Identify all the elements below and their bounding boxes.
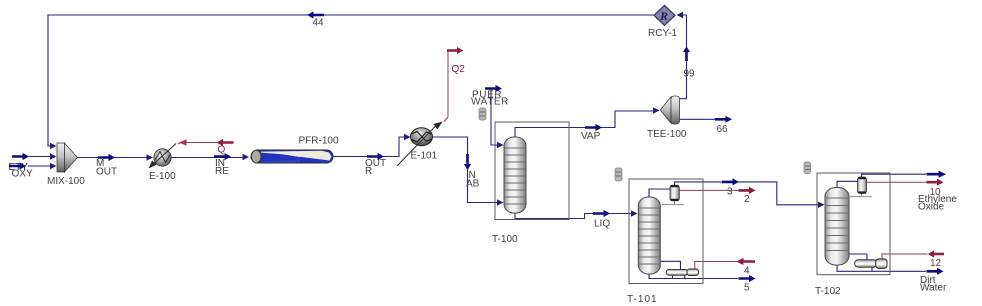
svg-text:E-101: E-101 — [411, 151, 438, 162]
svg-text:5: 5 — [744, 283, 750, 294]
svg-text:Q: Q — [218, 145, 226, 156]
svg-text:AB: AB — [466, 179, 480, 190]
svg-text:VAP: VAP — [581, 131, 601, 142]
svg-text:Q2: Q2 — [452, 64, 466, 75]
svg-text:Oxide: Oxide — [918, 202, 945, 213]
svg-text:T-100: T-100 — [492, 234, 518, 245]
svg-text:66: 66 — [717, 124, 729, 135]
svg-text:RE: RE — [215, 166, 229, 177]
svg-text:4: 4 — [744, 266, 750, 277]
svg-text:T-102: T-102 — [815, 286, 841, 297]
svg-text:R: R — [365, 166, 372, 177]
svg-text:TEE-100: TEE-100 — [647, 129, 687, 140]
svg-text:WATER: WATER — [471, 97, 509, 108]
svg-text:2: 2 — [744, 194, 750, 205]
svg-text:RCY-1: RCY-1 — [648, 28, 678, 39]
svg-text:LIQ: LIQ — [594, 219, 610, 230]
svg-text:3: 3 — [727, 187, 733, 198]
svg-text:99: 99 — [684, 69, 696, 80]
svg-text:44: 44 — [313, 18, 325, 29]
svg-text:R: R — [659, 9, 668, 23]
svg-text:T-101: T-101 — [627, 294, 658, 305]
svg-text:MIX-100: MIX-100 — [47, 176, 85, 187]
svg-text:PFR-100: PFR-100 — [299, 136, 339, 147]
svg-text:12: 12 — [930, 258, 942, 269]
svg-text:E-100: E-100 — [149, 171, 176, 182]
svg-text:OUT: OUT — [96, 167, 117, 178]
svg-text:OXY: OXY — [12, 169, 33, 180]
svg-text:Water: Water — [920, 283, 947, 294]
